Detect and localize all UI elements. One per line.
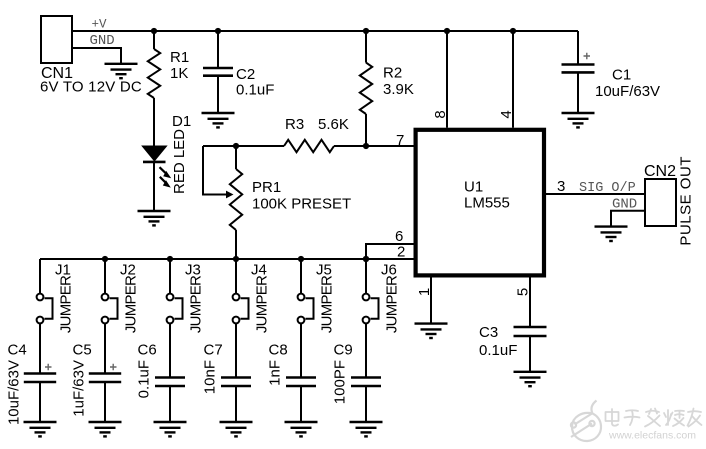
value 10uF/63V (C4) <box>6 360 23 425</box>
svg-text:C1: C1 <box>612 67 631 84</box>
capacitor C7 <box>221 378 251 387</box>
wire +V bus <box>73 30 578 32</box>
wire J5-C8 <box>300 323 302 377</box>
ground (CN2) <box>595 227 628 241</box>
svg-text:JUMPER: JUMPER <box>58 275 75 333</box>
label JUMPER (J2) <box>123 275 140 333</box>
pin name SIG O/P <box>579 181 636 196</box>
svg-text:2: 2 <box>397 244 405 261</box>
wire J6 top <box>365 259 367 294</box>
capacitor C9 <box>351 378 381 387</box>
label J2 <box>120 262 136 279</box>
label C8 <box>269 342 288 359</box>
wire J2 top <box>104 259 106 294</box>
jumper J6 <box>363 294 379 324</box>
ground (C1) <box>562 113 595 127</box>
pin name +V <box>92 18 108 32</box>
ground (C5) <box>89 422 122 436</box>
svg-text:C2: C2 <box>236 66 255 83</box>
ground (C7) <box>220 422 253 436</box>
wire C1 top <box>577 31 579 65</box>
junction C2/+V <box>215 28 221 34</box>
pin number 6 <box>395 228 403 245</box>
label 0.1uF (C3) <box>479 342 517 359</box>
label C4 <box>8 342 27 359</box>
wire bottom bus (pin 2) <box>40 258 414 260</box>
capacitor C4 <box>24 374 56 383</box>
label U1 <box>464 179 483 196</box>
label C2 <box>236 66 255 83</box>
label 3.9K <box>383 81 414 98</box>
label J1 <box>55 262 71 279</box>
LED D1 arrows <box>160 167 172 187</box>
svg-text:C6: C6 <box>138 342 157 359</box>
op-amp U1 body (LM555) <box>416 130 544 276</box>
watermark logo <box>571 401 601 442</box>
ground (pin 1) <box>415 324 448 338</box>
svg-text:R2: R2 <box>383 65 402 82</box>
label JUMPER (J4) <box>254 275 271 333</box>
capacitor C3 <box>514 327 547 336</box>
svg-text:C8: C8 <box>269 342 288 359</box>
jumper J1 <box>37 294 53 324</box>
label C3 <box>479 324 498 341</box>
wire C8-ground <box>300 386 302 422</box>
svg-text:10nF: 10nF <box>202 360 219 394</box>
label C1 <box>612 67 631 84</box>
label 6V TO 12V DC <box>40 79 142 96</box>
wire pin 7 left <box>203 145 284 147</box>
wire J1 top <box>39 259 41 294</box>
svg-text:RED LED: RED LED <box>171 129 188 194</box>
svg-text:R3: R3 <box>285 116 304 133</box>
svg-text:GND: GND <box>612 197 637 213</box>
svg-text:JUMPER: JUMPER <box>123 275 140 333</box>
ground (D1) <box>138 211 171 225</box>
wire J3-C6 <box>169 323 171 377</box>
svg-text:7: 7 <box>396 132 404 149</box>
ground (C4) <box>24 422 57 436</box>
label 1K <box>170 65 188 82</box>
label CN2 <box>644 163 676 180</box>
junction bus/J4 <box>233 256 239 262</box>
wire R1 top <box>153 31 155 49</box>
wire CN1 GND <box>73 48 121 64</box>
label C5 <box>73 342 92 359</box>
svg-text:5.6K: 5.6K <box>318 116 349 133</box>
wire J6-C9 <box>365 323 367 377</box>
label J4 <box>251 262 267 279</box>
wire pin 7 right <box>334 145 414 147</box>
wire J5 top <box>300 259 302 294</box>
ground (C9) <box>350 422 383 436</box>
svg-text:U1: U1 <box>464 179 483 196</box>
wire R1-D1 <box>153 98 155 146</box>
wire C7-ground <box>235 386 237 422</box>
junction bus/J3 <box>167 256 173 262</box>
wire R2 bottom <box>365 114 367 146</box>
junction PR1 top <box>233 143 239 149</box>
label J3 <box>185 262 201 279</box>
wire C6-ground <box>169 386 171 422</box>
svg-text:8: 8 <box>432 110 449 118</box>
label 0.1uF (C2) <box>236 82 274 99</box>
pin number 8 <box>432 110 449 118</box>
wire C9-ground <box>365 386 367 422</box>
pin name GND (CN1) <box>90 33 115 49</box>
label J5 <box>316 262 332 279</box>
svg-text:3.9K: 3.9K <box>383 81 414 98</box>
label 10uF/63V <box>595 83 660 100</box>
junction bus/J5 <box>298 256 304 262</box>
svg-text:C3: C3 <box>479 324 498 341</box>
label C6 <box>138 342 157 359</box>
label JUMPER (J3) <box>188 275 205 333</box>
ground (C8) <box>285 422 318 436</box>
label JUMPER (J6) <box>384 275 401 333</box>
wire pin 5 <box>529 278 531 328</box>
svg-text:0.1uF: 0.1uF <box>236 82 274 99</box>
label JUMPER (J1) <box>58 275 75 333</box>
wire CN2 GND <box>611 211 645 227</box>
jumper J4 <box>233 294 249 324</box>
jumper J3 <box>167 294 183 324</box>
jumper J2 <box>102 294 118 324</box>
svg-text:6: 6 <box>395 228 403 245</box>
wire R2 top <box>365 31 367 63</box>
pin number 2 <box>397 244 405 261</box>
junction bus/J6 <box>363 256 369 262</box>
capacitor C5 <box>89 374 121 383</box>
svg-text:JUMPER: JUMPER <box>319 275 336 333</box>
label RED LED <box>171 129 188 194</box>
svg-text:10uF/63V: 10uF/63V <box>595 83 660 100</box>
capacitor C2 <box>203 68 233 76</box>
svg-text:C4: C4 <box>8 342 27 359</box>
svg-text:JUMPER: JUMPER <box>188 275 205 333</box>
svg-text:JUMPER: JUMPER <box>384 275 401 333</box>
pin name GND (CN2) <box>612 197 637 213</box>
label R3 <box>285 116 304 133</box>
label 100K PRESET <box>252 196 351 213</box>
label 5.6K <box>318 116 349 133</box>
junction pin4/+V <box>510 28 516 34</box>
pin number 1 <box>416 288 433 296</box>
preset PR1 wiper loop <box>203 146 226 195</box>
wire D1-ground <box>153 162 155 211</box>
wire pin 8 <box>446 31 448 128</box>
preset PR1 body <box>230 146 242 259</box>
label D1 <box>172 113 191 130</box>
svg-text:100PF: 100PF <box>332 360 349 404</box>
svg-text:R1: R1 <box>170 49 189 66</box>
watermark text dianzifashaoyou <box>606 409 702 427</box>
junction pin8/+V <box>444 28 450 34</box>
label J6 <box>381 262 397 279</box>
value 100PF (C9) <box>332 360 349 404</box>
plus sign (C5) <box>110 364 117 370</box>
svg-text:0.1uF: 0.1uF <box>136 360 153 398</box>
wire J4-C7 <box>235 323 237 377</box>
svg-text:4: 4 <box>498 110 515 118</box>
wire J3 top <box>169 259 171 294</box>
pin number 7 <box>396 132 404 149</box>
svg-text:6V TO 12V DC: 6V TO 12V DC <box>40 79 142 96</box>
svg-text:GND: GND <box>90 33 115 49</box>
label PULSE OUT <box>678 156 695 246</box>
svg-text:1nF: 1nF <box>267 360 284 386</box>
junction pin6/pin2 bus <box>363 256 369 262</box>
wire pin 3 <box>546 193 645 195</box>
svg-text:5: 5 <box>515 288 532 296</box>
label CN1 <box>41 65 73 82</box>
wire C3-ground <box>529 336 531 372</box>
junction R1/+V <box>151 28 157 34</box>
plus sign (C1) <box>584 53 591 59</box>
ground (C3) <box>514 372 547 386</box>
connector CN2 <box>645 179 676 226</box>
plus sign (C4) <box>45 364 52 370</box>
value 0.1uF (C6) <box>136 360 153 398</box>
preset PR1 wiper arrow <box>226 191 234 199</box>
svg-text:D1: D1 <box>172 113 191 130</box>
svg-text:PULSE OUT: PULSE OUT <box>678 156 695 246</box>
svg-text:100K PRESET: 100K PRESET <box>252 196 351 213</box>
label R2 <box>383 65 402 82</box>
svg-text:PR1: PR1 <box>252 179 281 196</box>
svg-text:1K: 1K <box>170 65 188 82</box>
label R1 <box>170 49 189 66</box>
svg-text:+V: +V <box>92 18 108 32</box>
junction R2/pin7 <box>363 143 369 149</box>
ground (CN1) <box>105 64 138 78</box>
jumper J5 <box>298 294 314 324</box>
svg-text:1uF/63V: 1uF/63V <box>71 360 88 417</box>
svg-text:3: 3 <box>557 178 565 195</box>
svg-text:C9: C9 <box>334 342 353 359</box>
label LM555 <box>464 195 510 212</box>
wire J2-C5 <box>104 323 106 373</box>
resistor R2 <box>360 63 372 114</box>
ground (C6) <box>154 422 187 436</box>
svg-text:1: 1 <box>416 288 433 296</box>
watermark url <box>608 430 696 442</box>
wire C1-ground <box>577 72 579 113</box>
pin number 3 <box>557 178 565 195</box>
ground (C2) <box>202 113 235 127</box>
connector CN1 <box>41 16 72 63</box>
wire J1-C4 <box>39 323 41 373</box>
svg-text:C5: C5 <box>73 342 92 359</box>
wire pin 6 branch <box>366 244 414 259</box>
wire pin 4 <box>512 31 514 128</box>
junction bus/J2 <box>102 256 108 262</box>
capacitor C1 <box>562 65 595 73</box>
wire C5-ground <box>104 382 106 422</box>
wire C2-ground <box>217 76 219 113</box>
svg-text:SIG O/P: SIG O/P <box>579 181 636 196</box>
LED D1 <box>142 146 166 162</box>
svg-text:www.elecfans.com: www.elecfans.com <box>608 430 696 442</box>
value 1nF (C8) <box>267 360 284 386</box>
svg-text:0.1uF: 0.1uF <box>479 342 517 359</box>
value 1uF/63V (C5) <box>71 360 88 417</box>
svg-text:CN2: CN2 <box>644 163 676 180</box>
resistor R1 <box>148 49 160 98</box>
svg-text:C7: C7 <box>204 342 223 359</box>
wire J4 top <box>235 259 237 294</box>
capacitor C8 <box>286 378 316 387</box>
capacitor C6 <box>155 378 185 387</box>
label JUMPER (J5) <box>319 275 336 333</box>
wire pin 1 <box>430 278 432 324</box>
label PR1 <box>252 179 281 196</box>
pin number 4 <box>498 110 515 118</box>
pin number 5 <box>515 288 532 296</box>
value 10nF (C7) <box>202 360 219 394</box>
svg-text:JUMPER: JUMPER <box>254 275 271 333</box>
wire C4-ground <box>39 382 41 422</box>
label C7 <box>204 342 223 359</box>
svg-text:10uF/63V: 10uF/63V <box>6 360 23 425</box>
svg-text:LM555: LM555 <box>464 195 510 212</box>
junction R2/+V <box>363 28 369 34</box>
label C9 <box>334 342 353 359</box>
resistor R3 <box>284 140 334 152</box>
wire C2 top <box>217 31 219 68</box>
